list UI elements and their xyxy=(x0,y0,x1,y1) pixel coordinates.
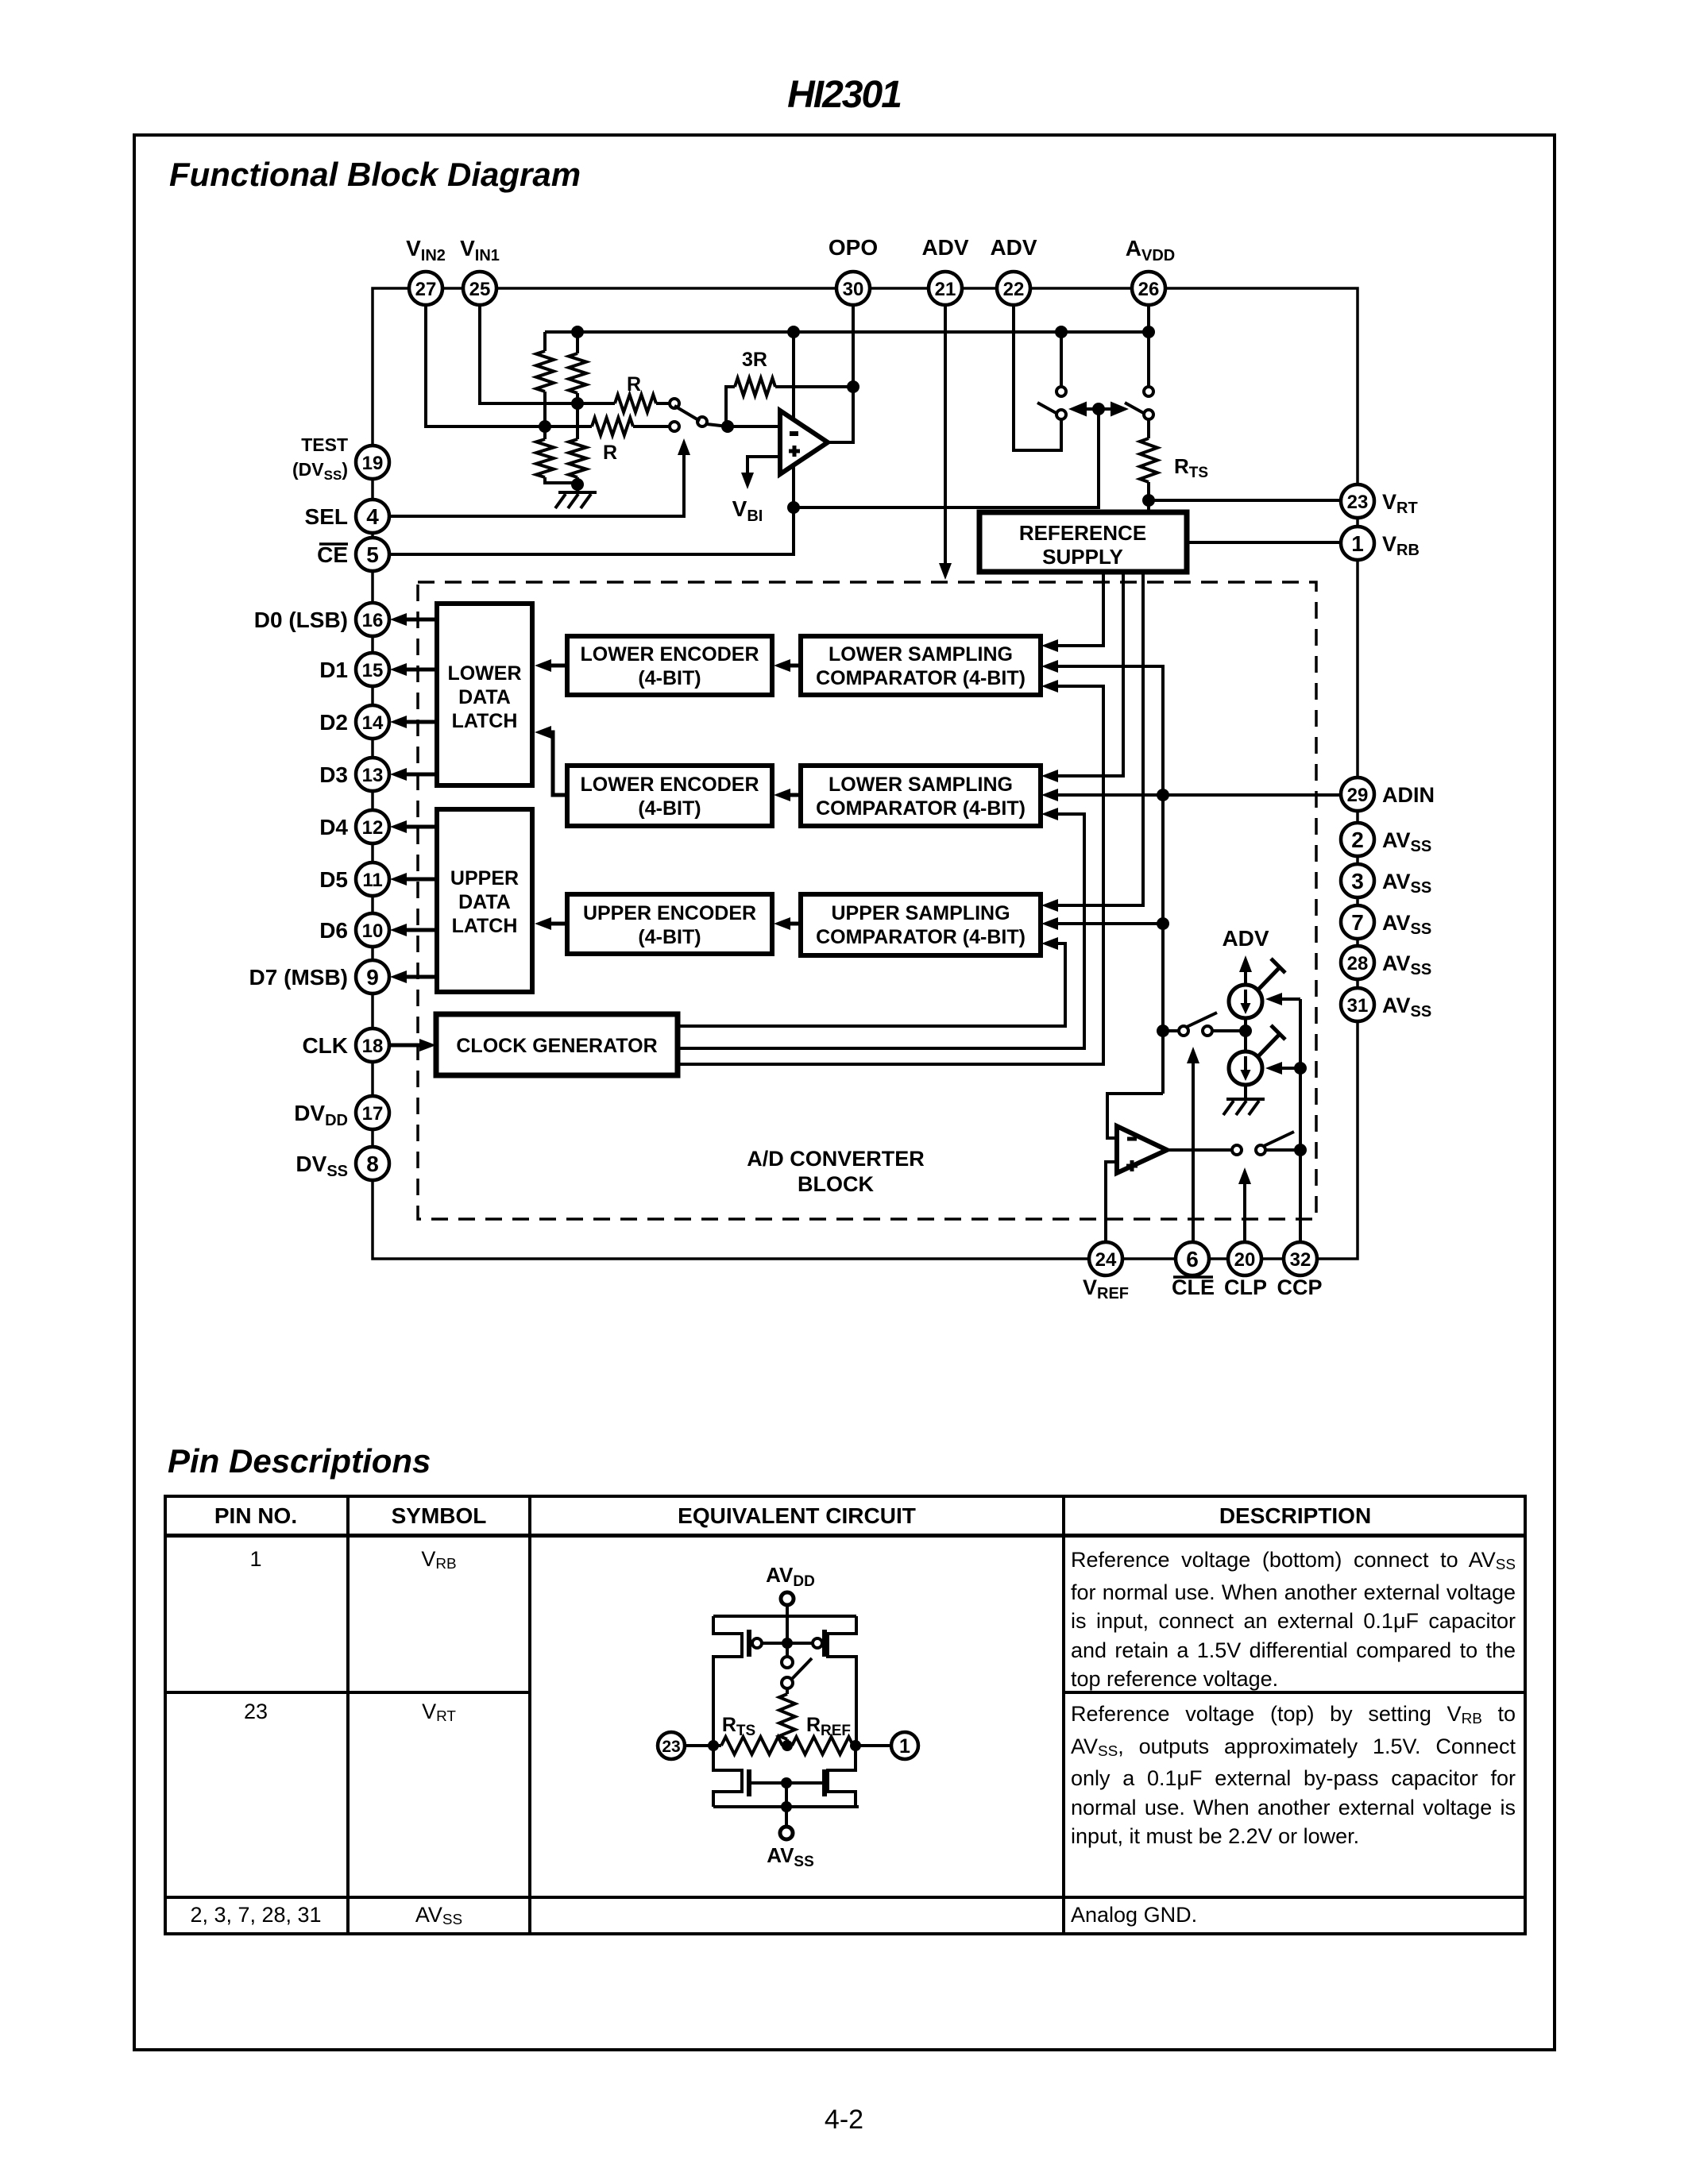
svg-text:UPPER ENCODER: UPPER ENCODER xyxy=(583,902,756,924)
page title HI2301 xyxy=(0,73,1688,117)
wire: U1 output to OPO pin 30 xyxy=(828,305,853,442)
table row 2: pin 23 VRT xyxy=(164,1700,348,1724)
equivalent circuit: gate switch xyxy=(786,1643,789,1657)
wire: comparator #1 to encoder #1 xyxy=(787,664,801,668)
pin 29 ADIN xyxy=(1341,778,1374,811)
svg-text:ADV: ADV xyxy=(1222,926,1269,951)
equivalent circuit: AVSS terminal xyxy=(785,1807,788,1827)
pin 31 AVSS xyxy=(1341,988,1374,1021)
IC package outline bus (pins sit on this rectangle) xyxy=(373,288,1358,1259)
equivalent circuit: NMOS M4 (right) body xyxy=(828,1746,856,1807)
svg-text:15: 15 xyxy=(362,660,384,681)
wire: VBI node to ADV switch common (double arrow) xyxy=(794,409,1099,507)
svg-text:AVSS: AVSS xyxy=(1382,911,1431,938)
wire: encoder #1 to lower data latch xyxy=(548,664,567,668)
node: 3R to OPO line xyxy=(847,380,859,393)
svg-text:VIN1: VIN1 xyxy=(460,236,500,264)
wire: U2 output to switch S3 xyxy=(1167,1148,1232,1152)
svg-text:18: 18 xyxy=(362,1036,384,1057)
pin 1 VRB xyxy=(1341,527,1374,560)
svg-text:SUPPLY: SUPPLY xyxy=(1042,545,1123,569)
LOWER SAMPLING COMPARATOR (4-BIT) block #1 xyxy=(801,636,1041,695)
svg-text:CLE: CLE xyxy=(1172,1275,1215,1299)
switch S1 arm xyxy=(674,406,700,421)
equivalent circuit: resistor RREF xyxy=(792,1737,853,1754)
UPPER DATA LATCH block xyxy=(437,809,532,992)
svg-text:23: 23 xyxy=(662,1738,680,1756)
svg-text:D5: D5 xyxy=(319,867,348,892)
equivalent circuit: M1 gate bubble xyxy=(752,1638,762,1648)
wire: VIN2 feed from pin 27 down and right to switch S1 lower contact xyxy=(426,305,592,426)
svg-text:4: 4 xyxy=(366,504,379,529)
node RTS bottom / VRT xyxy=(1142,494,1155,507)
svg-text:LATCH: LATCH xyxy=(452,915,518,937)
pin 13 D3 xyxy=(356,758,389,791)
svg-text:VIN2: VIN2 xyxy=(406,236,446,264)
svg-text:A/D CONVERTER: A/D CONVERTER xyxy=(747,1147,925,1171)
svg-text:COMPARATOR (4-BIT): COMPARATOR (4-BIT) xyxy=(816,797,1026,820)
wire: S3 to CCP net xyxy=(1265,1148,1300,1152)
pin 20 CLP xyxy=(1228,1242,1261,1275)
page number xyxy=(0,2106,1688,2133)
svg-text:3R: 3R xyxy=(742,349,767,371)
svg-text:22: 22 xyxy=(1003,279,1025,300)
pin 4 SEL xyxy=(356,500,389,533)
pin 7 AVSS xyxy=(1341,905,1374,939)
svg-text:14: 14 xyxy=(362,712,384,734)
wire: reference supply out 2 to comparator #2 ref input xyxy=(1058,572,1123,776)
svg-text:D6: D6 xyxy=(319,918,348,943)
pin 12 D4 xyxy=(356,810,389,843)
svg-text:26: 26 xyxy=(1138,279,1160,300)
wire: VRT to pin 23 xyxy=(1149,499,1341,502)
svg-text:16: 16 xyxy=(362,610,384,631)
svg-text:CLK: CLK xyxy=(302,1033,348,1058)
svg-text:31: 31 xyxy=(1347,995,1369,1017)
equivalent circuit: wire RREF to pin 1 xyxy=(853,1744,891,1747)
pin 14 D2 xyxy=(356,705,389,739)
equivalent circuit: top rail xyxy=(713,1615,856,1618)
LOWER ENCODER (4-BIT) block #2 xyxy=(567,766,772,826)
ADV switch B (right): top contact from pin 26 line xyxy=(1147,305,1150,387)
current source I2 xyxy=(1229,1051,1262,1085)
wire: lower data latch output to pin D3 xyxy=(404,773,437,777)
pin 30 OPO xyxy=(836,272,870,305)
wire: lower data latch output to pin D1 xyxy=(404,668,437,672)
wire: CLP pin 20 arrow up to switch S3 xyxy=(1243,1179,1246,1242)
svg-text:VRB: VRB xyxy=(1382,532,1420,559)
switch S3 right contact xyxy=(1256,1145,1265,1155)
wire: reference supply out 1 to comparator #1 ref input xyxy=(1058,572,1103,646)
equivalent circuit: AVDD lead to gate node xyxy=(786,1616,789,1643)
svg-text:27: 27 xyxy=(415,279,437,300)
svg-text:10: 10 xyxy=(362,920,384,942)
svg-text:17: 17 xyxy=(362,1103,384,1125)
CLOCK GENERATOR block xyxy=(436,1014,678,1075)
switch S1 lower contact xyxy=(670,422,679,431)
equivalent circuit: PMOS M1 (left) body xyxy=(713,1616,742,1746)
resistor ladder column 2 lower resistor xyxy=(569,439,586,477)
svg-text:13: 13 xyxy=(362,765,384,786)
wire: CLK pin into clock generator xyxy=(389,1044,423,1048)
svg-text:ADV: ADV xyxy=(921,235,968,260)
wire: lower data latch output to pin D2 xyxy=(404,720,437,724)
svg-text:11: 11 xyxy=(362,870,382,891)
svg-text:VRT: VRT xyxy=(1382,490,1418,517)
pin 18 CLK xyxy=(356,1028,389,1062)
table headers xyxy=(164,1503,348,1529)
svg-text:LOWER ENCODER: LOWER ENCODER xyxy=(581,643,759,666)
svg-text:AVSS: AVSS xyxy=(1382,870,1431,897)
resistor R (upper, VIN1 path) xyxy=(615,395,656,412)
wire: I1 to node below xyxy=(1244,1018,1247,1051)
wire: CCP pin 32 up to S3 node xyxy=(1299,1150,1302,1242)
wire: upper data latch output to pin D5 xyxy=(404,878,437,882)
svg-text:REFERENCE: REFERENCE xyxy=(1019,521,1146,545)
ADV switch A arm xyxy=(1037,403,1059,415)
pin 10 D6 xyxy=(356,913,389,947)
svg-text:BLOCK: BLOCK xyxy=(798,1172,874,1196)
junction node col2/VIN1 xyxy=(571,397,584,410)
junction node col1/VIN2 xyxy=(539,420,551,433)
wire: S1 common to op-amp U1 inverting input xyxy=(707,424,728,426)
svg-text:19: 19 xyxy=(362,453,384,474)
svg-text:LOWER SAMPLING: LOWER SAMPLING xyxy=(829,774,1013,796)
wire: top bus segment y=418 (VIN divider to AVDD branch) xyxy=(545,330,1149,334)
current source I1 xyxy=(1229,985,1262,1018)
wire: lower data latch output to pin D0 xyxy=(404,618,437,622)
resistor ladder column 1 lower resistor xyxy=(536,439,554,477)
svg-text:ADIN: ADIN xyxy=(1382,783,1435,807)
svg-text:7: 7 xyxy=(1351,910,1364,935)
equivalent circuit: M2 gate bubble xyxy=(813,1638,822,1648)
wire: CCP net arrow into I2 xyxy=(1280,1067,1300,1070)
ground (input divider) xyxy=(558,491,597,494)
svg-text:VBI: VBI xyxy=(732,496,763,525)
wire: CE from pin 5 right and up to VBI node xyxy=(389,507,794,554)
svg-text:D1: D1 xyxy=(319,658,348,682)
wire: upper encoder to upper data latch xyxy=(548,922,567,926)
equivalent circuit: pin 23 terminal xyxy=(658,1732,685,1759)
page frame xyxy=(133,133,1556,2051)
svg-text:28: 28 xyxy=(1347,953,1369,974)
switch S3 arm xyxy=(1264,1132,1294,1146)
svg-text:SEL: SEL xyxy=(305,504,348,529)
switch S1 (input select) upper contact xyxy=(670,399,679,408)
pin 6 CLE (active low) xyxy=(1176,1242,1209,1275)
pin description table xyxy=(164,1495,1527,1935)
svg-text:UPPER: UPPER xyxy=(450,867,519,889)
pin 11 D5 xyxy=(356,862,389,896)
switch S2 (CLE) left contact and wiring from ADIN net xyxy=(1163,1029,1179,1032)
svg-text:24: 24 xyxy=(1095,1249,1117,1271)
wire: upper comparator analog input from ADIN net xyxy=(1058,922,1163,925)
equivalent circuit: NMOS M3 (left) body xyxy=(713,1746,742,1807)
svg-text:CE: CE xyxy=(317,542,348,567)
wire: pin 22 to ADV switch A lower contact xyxy=(1014,305,1061,450)
node: ADIN net junctions xyxy=(1157,789,1169,801)
equivalent circuit: resistor RTS xyxy=(721,1737,782,1754)
svg-text:5: 5 xyxy=(366,542,379,567)
wire: upper data latch output to pin D4 xyxy=(404,825,437,829)
svg-text:D2: D2 xyxy=(319,710,348,735)
LOWER DATA LATCH block xyxy=(437,604,532,785)
svg-text:30: 30 xyxy=(843,279,864,300)
switch S2 arm xyxy=(1187,1013,1217,1027)
svg-text:AVDD: AVDD xyxy=(1126,236,1175,264)
svg-text:AVSS: AVSS xyxy=(767,1843,814,1870)
svg-text:2: 2 xyxy=(1351,828,1364,852)
svg-text:(DVSS): (DVSS) xyxy=(292,459,348,483)
svg-text:CCP: CCP xyxy=(1277,1275,1322,1299)
svg-text:RTS: RTS xyxy=(1174,454,1208,481)
A/D converter block boundary (dashed) xyxy=(418,582,1316,1219)
resistor ladder column 2 upper resistor xyxy=(576,332,579,353)
resistor RTS xyxy=(1147,419,1150,438)
wire: upper data latch output to pin D6 xyxy=(404,928,437,932)
heading Pin Descriptions xyxy=(168,1442,431,1480)
wire: comparator #2 clock input from clock generator line 2 xyxy=(678,814,1084,1048)
svg-text:3: 3 xyxy=(1351,869,1364,893)
wire: CCP net vertical xyxy=(1299,999,1302,1150)
wire: VIN1 feed from pin 25 down and right to switch S1 upper contact xyxy=(480,305,615,403)
switch S2 right contact xyxy=(1203,1026,1212,1036)
pin 24 VREF xyxy=(1089,1242,1122,1275)
svg-text:D3: D3 xyxy=(319,762,348,787)
resistor R (lower, VIN2 path) xyxy=(592,418,633,435)
junction node col2/top bus xyxy=(571,326,584,338)
svg-text:(4-BIT): (4-BIT) xyxy=(638,797,701,820)
wire: CCP net arrow into I1 xyxy=(1280,997,1300,1001)
ADV switch A lower contact xyxy=(1056,410,1066,419)
svg-text:OPO: OPO xyxy=(829,235,878,260)
wire: upper data latch output to pin D7 xyxy=(404,975,437,979)
UPPER SAMPLING COMPARATOR (4-BIT) block xyxy=(801,894,1041,955)
wire: upper comparator to upper encoder xyxy=(787,922,801,926)
svg-text:CLP: CLP xyxy=(1224,1275,1267,1299)
wire: U1 non-inverting input to VBI arrow xyxy=(747,457,780,478)
svg-text:CLOCK GENERATOR: CLOCK GENERATOR xyxy=(456,1035,657,1057)
equivalent circuit: PMOS M2 (right) body xyxy=(828,1616,856,1746)
REFERENCE SUPPLY block xyxy=(979,512,1187,572)
equivalent circuit: AVDD terminal xyxy=(781,1592,794,1605)
equivalent circuit: pin 1 terminal xyxy=(891,1732,918,1759)
svg-text:LATCH: LATCH xyxy=(452,710,518,732)
double-headed arrow between ADV switches xyxy=(1073,407,1124,411)
svg-text:LOWER: LOWER xyxy=(447,662,521,685)
ADV switch A (left): top contact from bus xyxy=(1060,332,1063,387)
svg-text:DVSS: DVSS xyxy=(295,1152,348,1180)
svg-text:21: 21 xyxy=(935,279,956,300)
pin 23 VRT xyxy=(1341,484,1374,518)
resistor 3R (op-amp U1 feedback) xyxy=(726,387,735,426)
equivalent circuit: bottom rail xyxy=(713,1805,859,1808)
pin 25 VIN1 xyxy=(463,272,496,305)
svg-text:DVDD: DVDD xyxy=(294,1101,348,1129)
wire: comparator #1 clock input from clock generator line 3 xyxy=(678,686,1103,1064)
wire: upper comparator clock input from clock generator line 1 xyxy=(678,943,1065,1026)
svg-text:UPPER SAMPLING: UPPER SAMPLING xyxy=(831,902,1010,924)
svg-text:(4-BIT): (4-BIT) xyxy=(638,926,701,948)
table row 3: AVSS pins xyxy=(164,1903,348,1927)
svg-text:LOWER SAMPLING: LOWER SAMPLING xyxy=(829,643,1013,666)
pin 15 D1 xyxy=(356,653,389,686)
pin 21 ADV xyxy=(929,272,962,305)
svg-text:D0 (LSB): D0 (LSB) xyxy=(254,608,348,632)
pin 32 CCP xyxy=(1284,1242,1317,1275)
wire: encoder #2 to lower data latch (elbow) xyxy=(548,732,567,795)
svg-text:RTS: RTS xyxy=(722,1714,755,1739)
svg-text:1: 1 xyxy=(899,1735,910,1758)
wire: SEL control from pin 4 to switch S1 xyxy=(389,450,684,516)
pin 5 CE (active low) xyxy=(356,538,389,571)
wire: comparator #2 to encoder #2 xyxy=(787,793,801,797)
control switch bar at I2 xyxy=(1258,1033,1280,1056)
svg-text:29: 29 xyxy=(1347,785,1369,806)
wire: reference supply to pin 1 VRB xyxy=(1187,541,1341,544)
switch S1 common contact xyxy=(697,417,707,426)
svg-text:D4: D4 xyxy=(319,815,348,839)
svg-text:RREF: RREF xyxy=(806,1714,851,1739)
svg-text:R: R xyxy=(627,373,641,396)
pin 27 VIN2 xyxy=(409,272,442,305)
junction node divider bottom xyxy=(571,478,584,491)
pin 9 D7 (MSB) xyxy=(356,960,389,994)
pin 26 AVDD xyxy=(1132,272,1165,305)
pin 8 DVSS xyxy=(356,1147,389,1180)
svg-text:32: 32 xyxy=(1290,1249,1311,1271)
svg-text:6: 6 xyxy=(1186,1247,1199,1271)
heading Functional Block Diagram xyxy=(169,156,581,194)
svg-text:AVSS: AVSS xyxy=(1382,994,1431,1021)
svg-text:AVSS: AVSS xyxy=(1382,828,1431,855)
svg-text:TEST: TEST xyxy=(301,434,348,455)
control switch bar at I1 xyxy=(1258,967,1280,990)
svg-text:25: 25 xyxy=(469,279,491,300)
svg-text:DATA: DATA xyxy=(458,891,511,913)
wire: ADIN pin 29 to comparator #2 analog input xyxy=(1058,793,1341,797)
wire: CLE pin 6 arrow up to switch S2 xyxy=(1192,1058,1195,1242)
svg-text:ADV: ADV xyxy=(990,235,1037,260)
svg-text:(4-BIT): (4-BIT) xyxy=(638,667,701,689)
svg-text:COMPARATOR (4-BIT): COMPARATOR (4-BIT) xyxy=(816,667,1026,689)
pin 17 DVDD xyxy=(356,1096,389,1129)
LOWER SAMPLING COMPARATOR (4-BIT) block #2 xyxy=(801,766,1041,826)
LOWER ENCODER (4-BIT) block #1 xyxy=(567,636,772,695)
svg-text:DATA: DATA xyxy=(458,686,511,708)
wire: S2 to I1 node xyxy=(1212,1029,1246,1032)
pin 22 ADV xyxy=(997,272,1030,305)
pin 3 AVSS xyxy=(1341,864,1374,897)
svg-text:VREF: VREF xyxy=(1083,1275,1129,1302)
ADV switch B lower contact xyxy=(1144,410,1153,419)
pin 28 AVSS xyxy=(1341,946,1374,979)
svg-text:AVSS: AVSS xyxy=(1382,951,1431,978)
wire: I2 to ground xyxy=(1244,1085,1247,1099)
wire: vertical from top bus through U1 to VBI node (CE net) xyxy=(792,332,795,507)
svg-text:COMPARATOR (4-BIT): COMPARATOR (4-BIT) xyxy=(816,926,1026,948)
wire: reference supply out 3 to upper comparator ref input xyxy=(1058,572,1143,905)
op-amp U1 xyxy=(780,411,828,474)
pin 2 AVSS xyxy=(1341,823,1374,856)
pin 19 TEST (DVSS) xyxy=(356,446,389,479)
equivalent circuit: trimming resistor (vertical) xyxy=(786,1688,789,1694)
svg-text:20: 20 xyxy=(1234,1249,1256,1271)
equivalent circuit: wire 23 to RTS xyxy=(685,1744,721,1747)
svg-text:AVDD: AVDD xyxy=(766,1563,815,1590)
svg-text:R: R xyxy=(603,442,617,464)
wire: U2 inverting input feedback to S2/I1 node xyxy=(1107,1094,1163,1138)
svg-text:23: 23 xyxy=(1347,492,1369,513)
ADV switch B arm xyxy=(1125,403,1146,415)
svg-text:1: 1 xyxy=(1351,531,1364,556)
svg-text:LOWER ENCODER: LOWER ENCODER xyxy=(581,774,759,796)
pin 16 D0 (LSB) xyxy=(356,603,389,636)
wire: pin 21 ADV arrow into A/D block xyxy=(944,305,947,569)
ground (below current source I2) xyxy=(1226,1098,1265,1101)
svg-text:8: 8 xyxy=(366,1152,379,1176)
resistor ladder column 1 upper resistor xyxy=(543,332,547,351)
svg-text:9: 9 xyxy=(366,965,379,990)
table row 1: pin 1 VRB xyxy=(164,1547,348,1572)
wire: U2 non-inverting input from pin 24 VREF xyxy=(1106,1162,1117,1242)
UPPER ENCODER (4-BIT) block xyxy=(567,894,772,954)
op-amp U2 (VREF buffer) xyxy=(1117,1126,1167,1173)
svg-text:D7 (MSB): D7 (MSB) xyxy=(249,965,348,990)
wire: comparator #1 analog input from ADIN net xyxy=(1058,666,1163,1094)
switch S3 (CLP) left contact xyxy=(1232,1145,1242,1155)
svg-text:12: 12 xyxy=(362,817,384,839)
arrow up from current source I1 to ADV label xyxy=(1244,967,1247,985)
